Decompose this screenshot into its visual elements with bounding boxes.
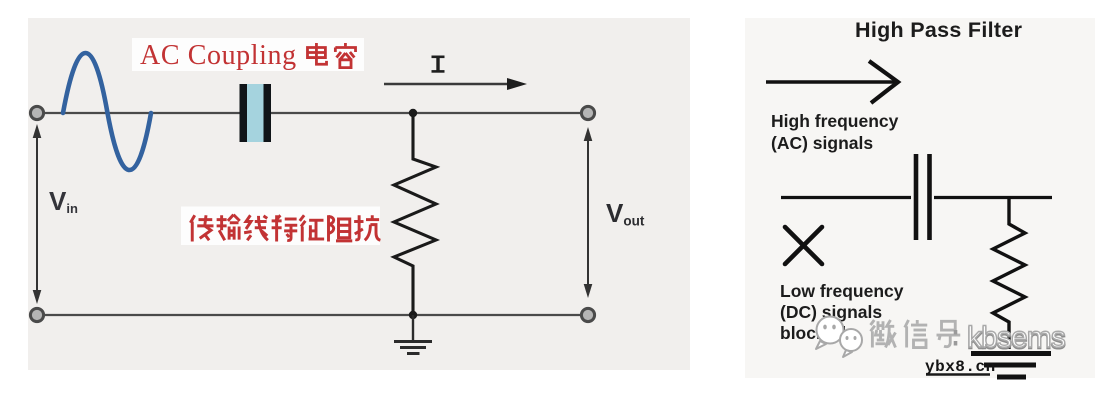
svg-text:Low frequency: Low frequency <box>780 281 904 301</box>
svg-text:(AC) signals: (AC) signals <box>771 133 873 153</box>
svg-text:AC Coupling: AC Coupling <box>140 40 297 71</box>
svg-text:kbsems: kbsems <box>967 321 1065 354</box>
svg-text:High Pass Filter: High Pass Filter <box>855 18 1023 42</box>
svg-text:High frequency: High frequency <box>771 111 899 131</box>
